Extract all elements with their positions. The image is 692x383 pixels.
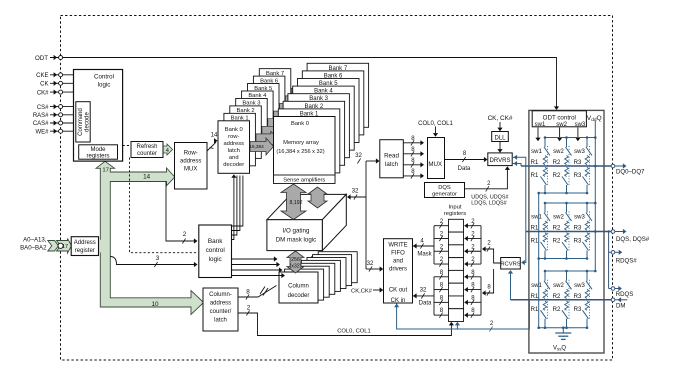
svg-text:row-: row- — [228, 134, 239, 140]
svg-text:logic: logic — [98, 82, 111, 89]
svg-text:R2: R2 — [553, 173, 561, 179]
svg-text:sw3: sw3 — [574, 215, 585, 221]
svg-text:17: 17 — [62, 244, 68, 250]
svg-text:8,192: 8,192 — [290, 200, 303, 206]
svg-text:registers: registers — [86, 153, 109, 159]
svg-text:logic: logic — [209, 256, 223, 263]
svg-text:CK#: CK# — [37, 90, 49, 96]
svg-text:sw2: sw2 — [553, 149, 564, 155]
svg-text:Control: Control — [94, 74, 114, 81]
svg-text:10: 10 — [151, 301, 159, 308]
svg-text:CKE: CKE — [36, 73, 48, 79]
svg-text:DM: DM — [616, 303, 625, 310]
svg-text:drivers: drivers — [389, 267, 407, 273]
svg-text:and: and — [229, 155, 239, 161]
svg-text:R3: R3 — [574, 307, 582, 313]
svg-text:DQS, DQS#: DQS, DQS# — [616, 236, 650, 243]
svg-text:sw1: sw1 — [531, 149, 542, 155]
svg-text:sw3: sw3 — [574, 149, 585, 155]
svg-text:VssQ: VssQ — [553, 346, 566, 352]
svg-text:14: 14 — [211, 132, 218, 139]
svg-text:address: address — [180, 159, 201, 165]
svg-text:address: address — [210, 301, 231, 307]
svg-text:A0–A13,: A0–A13, — [23, 237, 47, 244]
svg-text:Read: Read — [384, 152, 399, 159]
svg-text:32: 32 — [355, 152, 362, 159]
svg-text:WE#: WE# — [35, 129, 49, 135]
svg-text:R2: R2 — [553, 307, 561, 313]
svg-text:Refresh: Refresh — [136, 144, 157, 150]
svg-text:register: register — [75, 248, 95, 254]
svg-text:DLL: DLL — [494, 135, 506, 141]
svg-text:Bank 0: Bank 0 — [291, 121, 309, 127]
svg-text:Column: Column — [288, 284, 309, 290]
svg-text:3: 3 — [156, 255, 160, 262]
svg-text:Address: Address — [74, 240, 96, 246]
svg-text:DM mask logic: DM mask logic — [276, 236, 317, 243]
svg-text:CK out: CK out — [389, 288, 408, 294]
svg-text:Data: Data — [419, 301, 432, 307]
svg-text:latch: latch — [228, 148, 240, 154]
svg-text:32: 32 — [367, 260, 374, 267]
svg-text:address: address — [223, 141, 244, 147]
svg-text:RDQS: RDQS — [616, 291, 634, 298]
svg-text:and: and — [393, 259, 403, 265]
svg-text:32: 32 — [352, 188, 359, 195]
svg-text:ODT control: ODT control — [543, 115, 576, 122]
svg-text:R1: R1 — [531, 239, 539, 245]
svg-text:DQ0–DQ7: DQ0–DQ7 — [616, 168, 645, 175]
svg-text:sw3: sw3 — [574, 283, 585, 289]
svg-text:Memory array: Memory array — [283, 140, 319, 146]
svg-text:control: control — [206, 247, 225, 254]
svg-text:DRVRS: DRVRS — [490, 158, 511, 164]
svg-text:COL0, COL1: COL0, COL1 — [418, 121, 453, 127]
svg-text:MUX: MUX — [428, 161, 442, 168]
svg-text:decode: decode — [84, 111, 90, 131]
svg-text:DQS: DQS — [438, 185, 451, 191]
svg-text:4: 4 — [166, 148, 169, 154]
svg-text:Input: Input — [449, 205, 462, 211]
svg-text:8: 8 — [246, 289, 250, 296]
svg-text:RDQS#: RDQS# — [616, 258, 638, 265]
svg-text:FIFO: FIFO — [391, 251, 405, 257]
svg-text:Mask: Mask — [417, 252, 432, 258]
svg-text:counter/: counter/ — [210, 309, 232, 315]
svg-text:R2: R2 — [553, 239, 561, 245]
svg-text:RCVRS: RCVRS — [500, 262, 520, 268]
svg-text:BA0–BA2: BA0–BA2 — [20, 245, 47, 252]
svg-text:generator: generator — [432, 192, 457, 198]
svg-text:latch: latch — [385, 161, 399, 168]
svg-text:latch: latch — [214, 318, 227, 324]
svg-text:sw1: sw1 — [531, 215, 542, 221]
svg-text:Command: Command — [78, 108, 84, 136]
svg-text:registers: registers — [444, 211, 466, 217]
svg-text:2: 2 — [183, 231, 187, 238]
svg-text:32: 32 — [420, 287, 427, 294]
svg-text:2: 2 — [247, 305, 251, 312]
svg-text:Mode: Mode — [90, 147, 106, 153]
svg-text:sw1: sw1 — [535, 122, 546, 128]
svg-text:R3: R3 — [574, 173, 582, 179]
svg-text:MUX: MUX — [184, 167, 197, 173]
svg-text:sw2: sw2 — [556, 122, 567, 128]
svg-text:COL0, COL1: COL0, COL1 — [337, 329, 371, 335]
svg-text:Bank 0: Bank 0 — [225, 127, 243, 133]
svg-text:Data: Data — [458, 166, 471, 172]
svg-text:CK: CK — [40, 82, 48, 88]
svg-text:Column-: Column- — [209, 292, 232, 298]
svg-text:(16,384 x 256 x 32): (16,384 x 256 x 32) — [276, 149, 324, 155]
svg-text:17: 17 — [102, 168, 109, 174]
svg-text:CK, CK#: CK, CK# — [488, 115, 513, 122]
svg-text:sw3: sw3 — [575, 122, 586, 128]
svg-text:sw1: sw1 — [531, 283, 542, 289]
svg-text:R1: R1 — [531, 307, 539, 313]
svg-text:ODT: ODT — [35, 55, 48, 62]
svg-text:LDQS, LDQS#: LDQS, LDQS# — [471, 201, 506, 207]
svg-text:Bank: Bank — [208, 238, 223, 245]
svg-text:CAS#: CAS# — [33, 121, 49, 127]
svg-text:14: 14 — [143, 174, 151, 181]
svg-text:decoder: decoder — [288, 293, 310, 299]
svg-text:R3: R3 — [574, 239, 582, 245]
svg-text:I/O gating: I/O gating — [283, 227, 310, 234]
svg-text:256: 256 — [291, 257, 300, 263]
svg-text:R1: R1 — [531, 173, 539, 179]
svg-text:sw2: sw2 — [553, 215, 564, 221]
svg-text:RAS#: RAS# — [33, 113, 49, 119]
svg-text:CK in: CK in — [391, 298, 406, 304]
svg-text:counter: counter — [137, 151, 157, 157]
svg-text:16,384: 16,384 — [249, 144, 264, 150]
svg-text:Sense amplifiers: Sense amplifiers — [283, 177, 325, 183]
svg-text:WRITE: WRITE — [388, 243, 407, 249]
svg-text:(x32): (x32) — [290, 264, 302, 270]
svg-text:sw2: sw2 — [553, 283, 564, 289]
svg-text:decoder: decoder — [223, 162, 244, 168]
svg-text:Row-: Row- — [184, 151, 198, 157]
svg-text:CK,CK#: CK,CK# — [351, 288, 373, 294]
svg-text:CS#: CS# — [37, 105, 49, 111]
